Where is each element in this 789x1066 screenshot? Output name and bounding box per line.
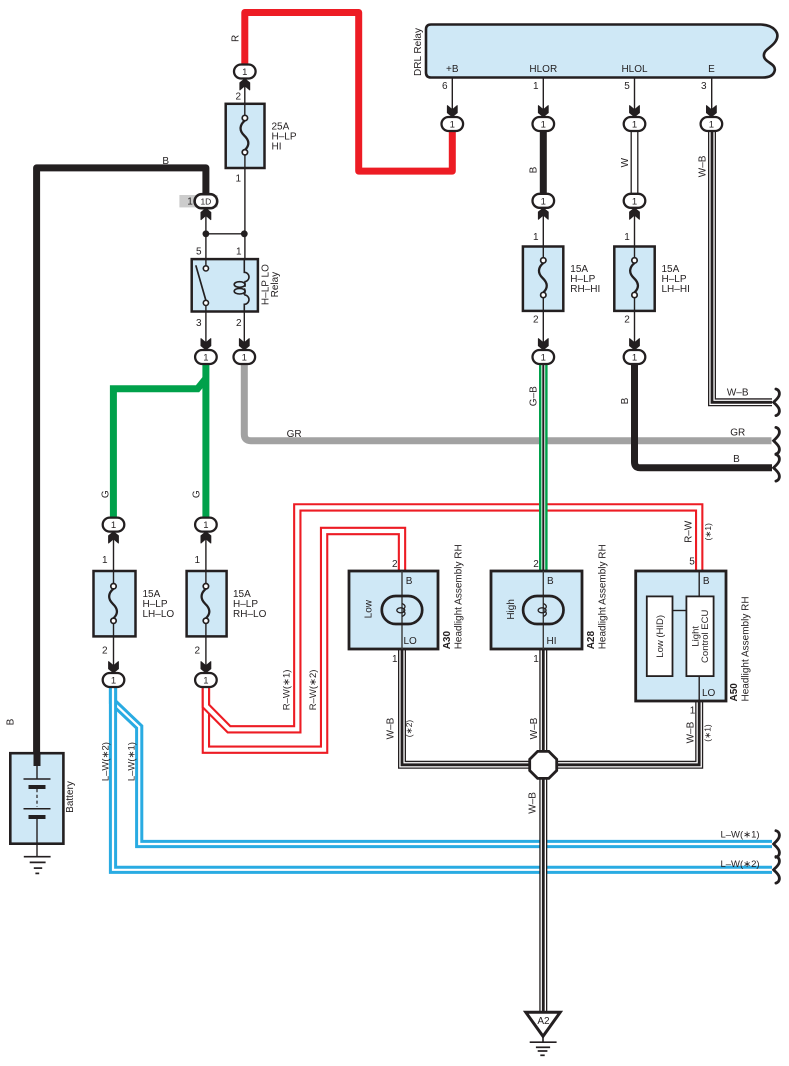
svg-text:1: 1 [624, 232, 630, 243]
arrow up into connector above fuse RH-HI [538, 208, 548, 219]
headlight A28 box [491, 571, 582, 649]
svg-text:Relay: Relay [270, 272, 281, 298]
svg-text:1: 1 [203, 520, 208, 531]
svg-text:RH–HI: RH–HI [570, 284, 600, 295]
arrow down into connector below fuse RH-HI [538, 339, 548, 350]
svg-text:2: 2 [102, 645, 108, 656]
wire B thick black from LH-HI fuse to right edge [635, 361, 773, 468]
svg-text:1: 1 [533, 81, 539, 92]
wire L-W(*2) blue from LH-LO fuse connector to right edge [113, 684, 772, 870]
DRL Relay box [426, 25, 777, 78]
svg-text:1: 1 [242, 353, 247, 364]
break symbol W-B right [774, 389, 780, 416]
wire G green branch to LH-LO fuse [113, 379, 205, 520]
svg-text:1: 1 [203, 676, 208, 687]
svg-text:L–W(∗1): L–W(∗1) [127, 742, 138, 781]
svg-text:1: 1 [541, 120, 546, 131]
svg-text:HLOL: HLOL [621, 64, 648, 75]
wire W-B from A30 pin 1 to ground junction [402, 649, 530, 765]
ARROWS [109, 79, 717, 673]
wire G-B green/black from RH-HI fuse to A28 pin 2 [539, 361, 548, 571]
connector 1 below DRL +B [442, 117, 464, 131]
svg-text:RH–LO: RH–LO [233, 609, 267, 620]
svg-text:L–W(∗2): L–W(∗2) [100, 742, 111, 781]
svg-text:1: 1 [242, 67, 247, 78]
svg-text:DRL Relay: DRL Relay [413, 28, 424, 76]
connector 1 above fuse RH-HI [533, 194, 555, 208]
svg-text:5: 5 [624, 81, 630, 92]
svg-text:1: 1 [111, 520, 116, 531]
svg-text:1: 1 [236, 247, 242, 258]
svg-text:B: B [6, 718, 17, 725]
thin wire 1D connector to relay pin 5 [205, 209, 207, 260]
svg-text:G: G [192, 490, 203, 498]
arrow down into connector below DRL +B [447, 106, 457, 117]
wire junction bar [206, 233, 244, 235]
svg-text:LO: LO [702, 688, 716, 699]
thin wires RH-LO fuse [205, 531, 207, 574]
wire W-B from A50 pin 1 to ground junction [556, 701, 699, 765]
svg-text:2: 2 [533, 559, 539, 570]
thin wire fuse 25A top to connector [244, 78, 246, 110]
wire R-W(*2) red/white from RH-LO fuse connector to A30 pin 2 [206, 531, 402, 750]
BREAKS [774, 389, 780, 883]
arrow down into connector below fuse RH-LO [201, 662, 211, 673]
svg-text:R–W(∗1): R–W(∗1) [282, 670, 293, 711]
connector 1 below DRL HLOR [533, 117, 555, 131]
thin wire relay pin 2 to connector [243, 312, 245, 352]
svg-text:R–W: R–W [684, 520, 695, 543]
thin wire relay pin 3 to connector [205, 312, 207, 352]
svg-text:HI: HI [547, 636, 557, 647]
arrow up into connector above fuse 25A [240, 79, 250, 90]
arrow down into connector below fuse LH-LO [109, 662, 119, 673]
thin wires RH-HI fuse [542, 207, 544, 250]
svg-text:2: 2 [194, 645, 200, 656]
ground junction octagon [530, 751, 557, 778]
battery [10, 753, 63, 873]
connector 1 above fuse 25A [234, 65, 256, 79]
svg-text:G–B: G–B [529, 386, 540, 406]
arrow down into connector below fuse LH-HI [630, 339, 640, 350]
svg-text:B: B [547, 576, 554, 587]
svg-text:L–W(∗1): L–W(∗1) [720, 829, 759, 840]
svg-text:A30: A30 [442, 631, 453, 650]
svg-text:Low: Low [363, 599, 374, 618]
svg-text:Headlight Assembly RH: Headlight Assembly RH [598, 544, 609, 649]
svg-text:(∗2): (∗2) [404, 720, 414, 738]
Light Control ECU unit [686, 596, 713, 676]
svg-text:GR: GR [287, 429, 302, 440]
svg-text:2: 2 [533, 315, 539, 326]
fuse 15A H-LP RH-HI [523, 247, 563, 312]
break symbol L-W(*2) right [774, 857, 780, 884]
svg-text:1: 1 [111, 676, 116, 687]
svg-text:1: 1 [709, 120, 714, 131]
node junction dot left [203, 230, 210, 237]
arrow down into connector below DRL E [707, 106, 717, 117]
wire W-B from A28 pin 1 through junction to ground A2 [539, 649, 547, 1012]
svg-text:+B: +B [446, 64, 459, 75]
wire G green from relay pin 3 down [202, 361, 209, 519]
svg-text:2: 2 [235, 92, 241, 103]
headlight A50 box [636, 571, 726, 701]
arrow up into connector above fuse LH-LO [109, 532, 119, 543]
svg-text:(∗1): (∗1) [703, 724, 713, 742]
svg-text:W–B: W–B [685, 721, 696, 743]
headlight A30 box [349, 571, 438, 649]
svg-text:1: 1 [541, 196, 546, 207]
thin wires LH-LO fuse [113, 531, 115, 574]
svg-text:W–B: W–B [528, 792, 539, 814]
svg-text:High: High [506, 599, 517, 620]
Low (HID) unit [647, 596, 673, 676]
svg-text:B: B [529, 166, 540, 173]
connector 1 below relay pin 2 [234, 350, 256, 364]
arrow down into connector below DRL HLOR [538, 106, 548, 117]
arrow down into connector below relay pin 3 [201, 339, 211, 350]
wire B thick black battery to 1D connector [37, 168, 206, 766]
svg-text:A2: A2 [537, 1016, 550, 1027]
connector 1 below fuse RH-LO [195, 673, 217, 687]
wire W-B from DRL E to right edge [712, 129, 772, 402]
svg-text:(∗1): (∗1) [703, 523, 713, 541]
connector 1 above fuse LH-LO [103, 518, 125, 532]
svg-text:1: 1 [450, 120, 455, 131]
relay H-LP LO [192, 259, 258, 311]
arrow up into connector above fuse RH-LO [201, 532, 211, 543]
svg-text:LH–LO: LH–LO [143, 609, 175, 620]
arrow up into connector above fuse LH-HI [630, 208, 640, 219]
svg-text:B: B [703, 576, 710, 587]
svg-text:Battery: Battery [65, 781, 76, 813]
svg-text:B: B [620, 397, 631, 404]
svg-text:W–B: W–B [727, 388, 749, 399]
bulb Low [382, 596, 422, 624]
svg-text:W–B: W–B [385, 717, 396, 739]
svg-text:LO: LO [404, 636, 418, 647]
svg-text:1: 1 [541, 353, 546, 364]
svg-text:1: 1 [533, 232, 539, 243]
svg-text:1: 1 [632, 120, 637, 131]
arrow down into connector below DRL HLOL [630, 106, 640, 117]
wire R thick red from fuse 25A to DRL relay +B [245, 13, 452, 172]
svg-text:1: 1 [392, 654, 398, 665]
connector 1 below fuse LH-LO [103, 673, 125, 687]
svg-text:R: R [230, 35, 241, 42]
svg-text:1: 1 [632, 353, 637, 364]
thin wires LH-HI fuse [634, 207, 636, 250]
thin wire fuse 25A to junction to relay pin 1 [244, 107, 246, 259]
svg-text:A28: A28 [586, 631, 597, 650]
svg-text:2: 2 [392, 559, 398, 570]
svg-text:G: G [100, 490, 111, 498]
svg-text:LH–HI: LH–HI [662, 284, 690, 295]
svg-text:L–W(∗2): L–W(∗2) [720, 859, 759, 870]
arrow down into connector below relay pin 2 [239, 339, 249, 350]
ground symbol A2 [530, 1036, 557, 1055]
svg-text:HI: HI [272, 142, 282, 153]
connector 1 below DRL HLOL [624, 117, 646, 131]
svg-text:1: 1 [203, 353, 208, 364]
svg-text:3: 3 [196, 318, 202, 329]
svg-text:W–B: W–B [529, 717, 540, 739]
svg-text:W–B: W–B [697, 155, 708, 177]
connector 1 above fuse RH-LO [195, 518, 217, 532]
arrow up into connector 1D [201, 208, 211, 219]
svg-text:1: 1 [632, 196, 637, 207]
svg-text:W: W [620, 157, 631, 167]
connector 1 below relay pin 3 [195, 350, 217, 364]
break symbol GR right [774, 427, 780, 454]
CONNECTORS [103, 65, 722, 688]
connector 1D gray tag [179, 195, 217, 207]
svg-text:1: 1 [187, 197, 193, 208]
svg-text:Low (HID): Low (HID) [655, 615, 666, 658]
svg-text:B: B [162, 156, 169, 167]
svg-text:1: 1 [690, 705, 696, 716]
node junction dot right [241, 230, 248, 237]
connector 1 below fuse RH-HI [533, 350, 555, 364]
thin wires DRL relay pins to connectors [451, 78, 453, 119]
wire L-W(*1) blue from LH-LO fuse connector to right edge [113, 684, 772, 844]
svg-text:Headlight Assembly RH: Headlight Assembly RH [741, 596, 752, 701]
connector 1 below fuse LH-HI [624, 350, 646, 364]
svg-text:1: 1 [194, 555, 200, 566]
wire R-W(*1) red/white from RH-LO fuse connector to A50 pin 5 [206, 507, 699, 729]
svg-text:Control ECU: Control ECU [700, 610, 711, 663]
svg-text:E: E [708, 64, 715, 75]
wire B thick black DRL HLOR to RH-HI fuse connector [540, 129, 547, 195]
svg-text:5: 5 [196, 247, 202, 258]
connector 1 above fuse LH-HI [624, 194, 646, 208]
svg-text:R–W(∗2): R–W(∗2) [308, 670, 319, 711]
fuse 15A H-LP LH-LO [94, 571, 136, 636]
fuse 25A H-LP HI [226, 104, 265, 168]
svg-text:6: 6 [442, 81, 448, 92]
svg-text:1: 1 [235, 173, 241, 184]
svg-text:2: 2 [236, 318, 242, 329]
break symbol L-W(*1) right [774, 831, 780, 858]
ground A2 triangle [526, 1012, 560, 1036]
fuse 15A H-LP RH-LO [187, 571, 227, 636]
svg-text:5: 5 [689, 557, 695, 568]
svg-text:B: B [733, 454, 740, 465]
svg-text:B: B [406, 576, 413, 587]
wire GR gray from relay pin 2 to right edge [244, 361, 771, 441]
ground under battery [36, 844, 38, 857]
break symbol B right [774, 455, 780, 482]
svg-text:1: 1 [102, 555, 108, 566]
wire W white DRL HLOL to LH-HI fuse connector [631, 129, 639, 195]
svg-text:3: 3 [701, 81, 707, 92]
svg-text:2: 2 [624, 315, 630, 326]
bulb High [523, 596, 563, 624]
svg-text:1: 1 [533, 654, 539, 665]
connector 1 below DRL E [701, 117, 723, 131]
svg-text:Headlight Assembly RH: Headlight Assembly RH [454, 544, 465, 649]
svg-text:A50: A50 [729, 683, 740, 702]
svg-text:HLOR: HLOR [529, 64, 557, 75]
svg-text:GR: GR [730, 427, 745, 438]
connector 1D [195, 194, 218, 208]
fuse 15A H-LP LH-HI [614, 247, 654, 312]
svg-text:1D: 1D [200, 197, 211, 207]
